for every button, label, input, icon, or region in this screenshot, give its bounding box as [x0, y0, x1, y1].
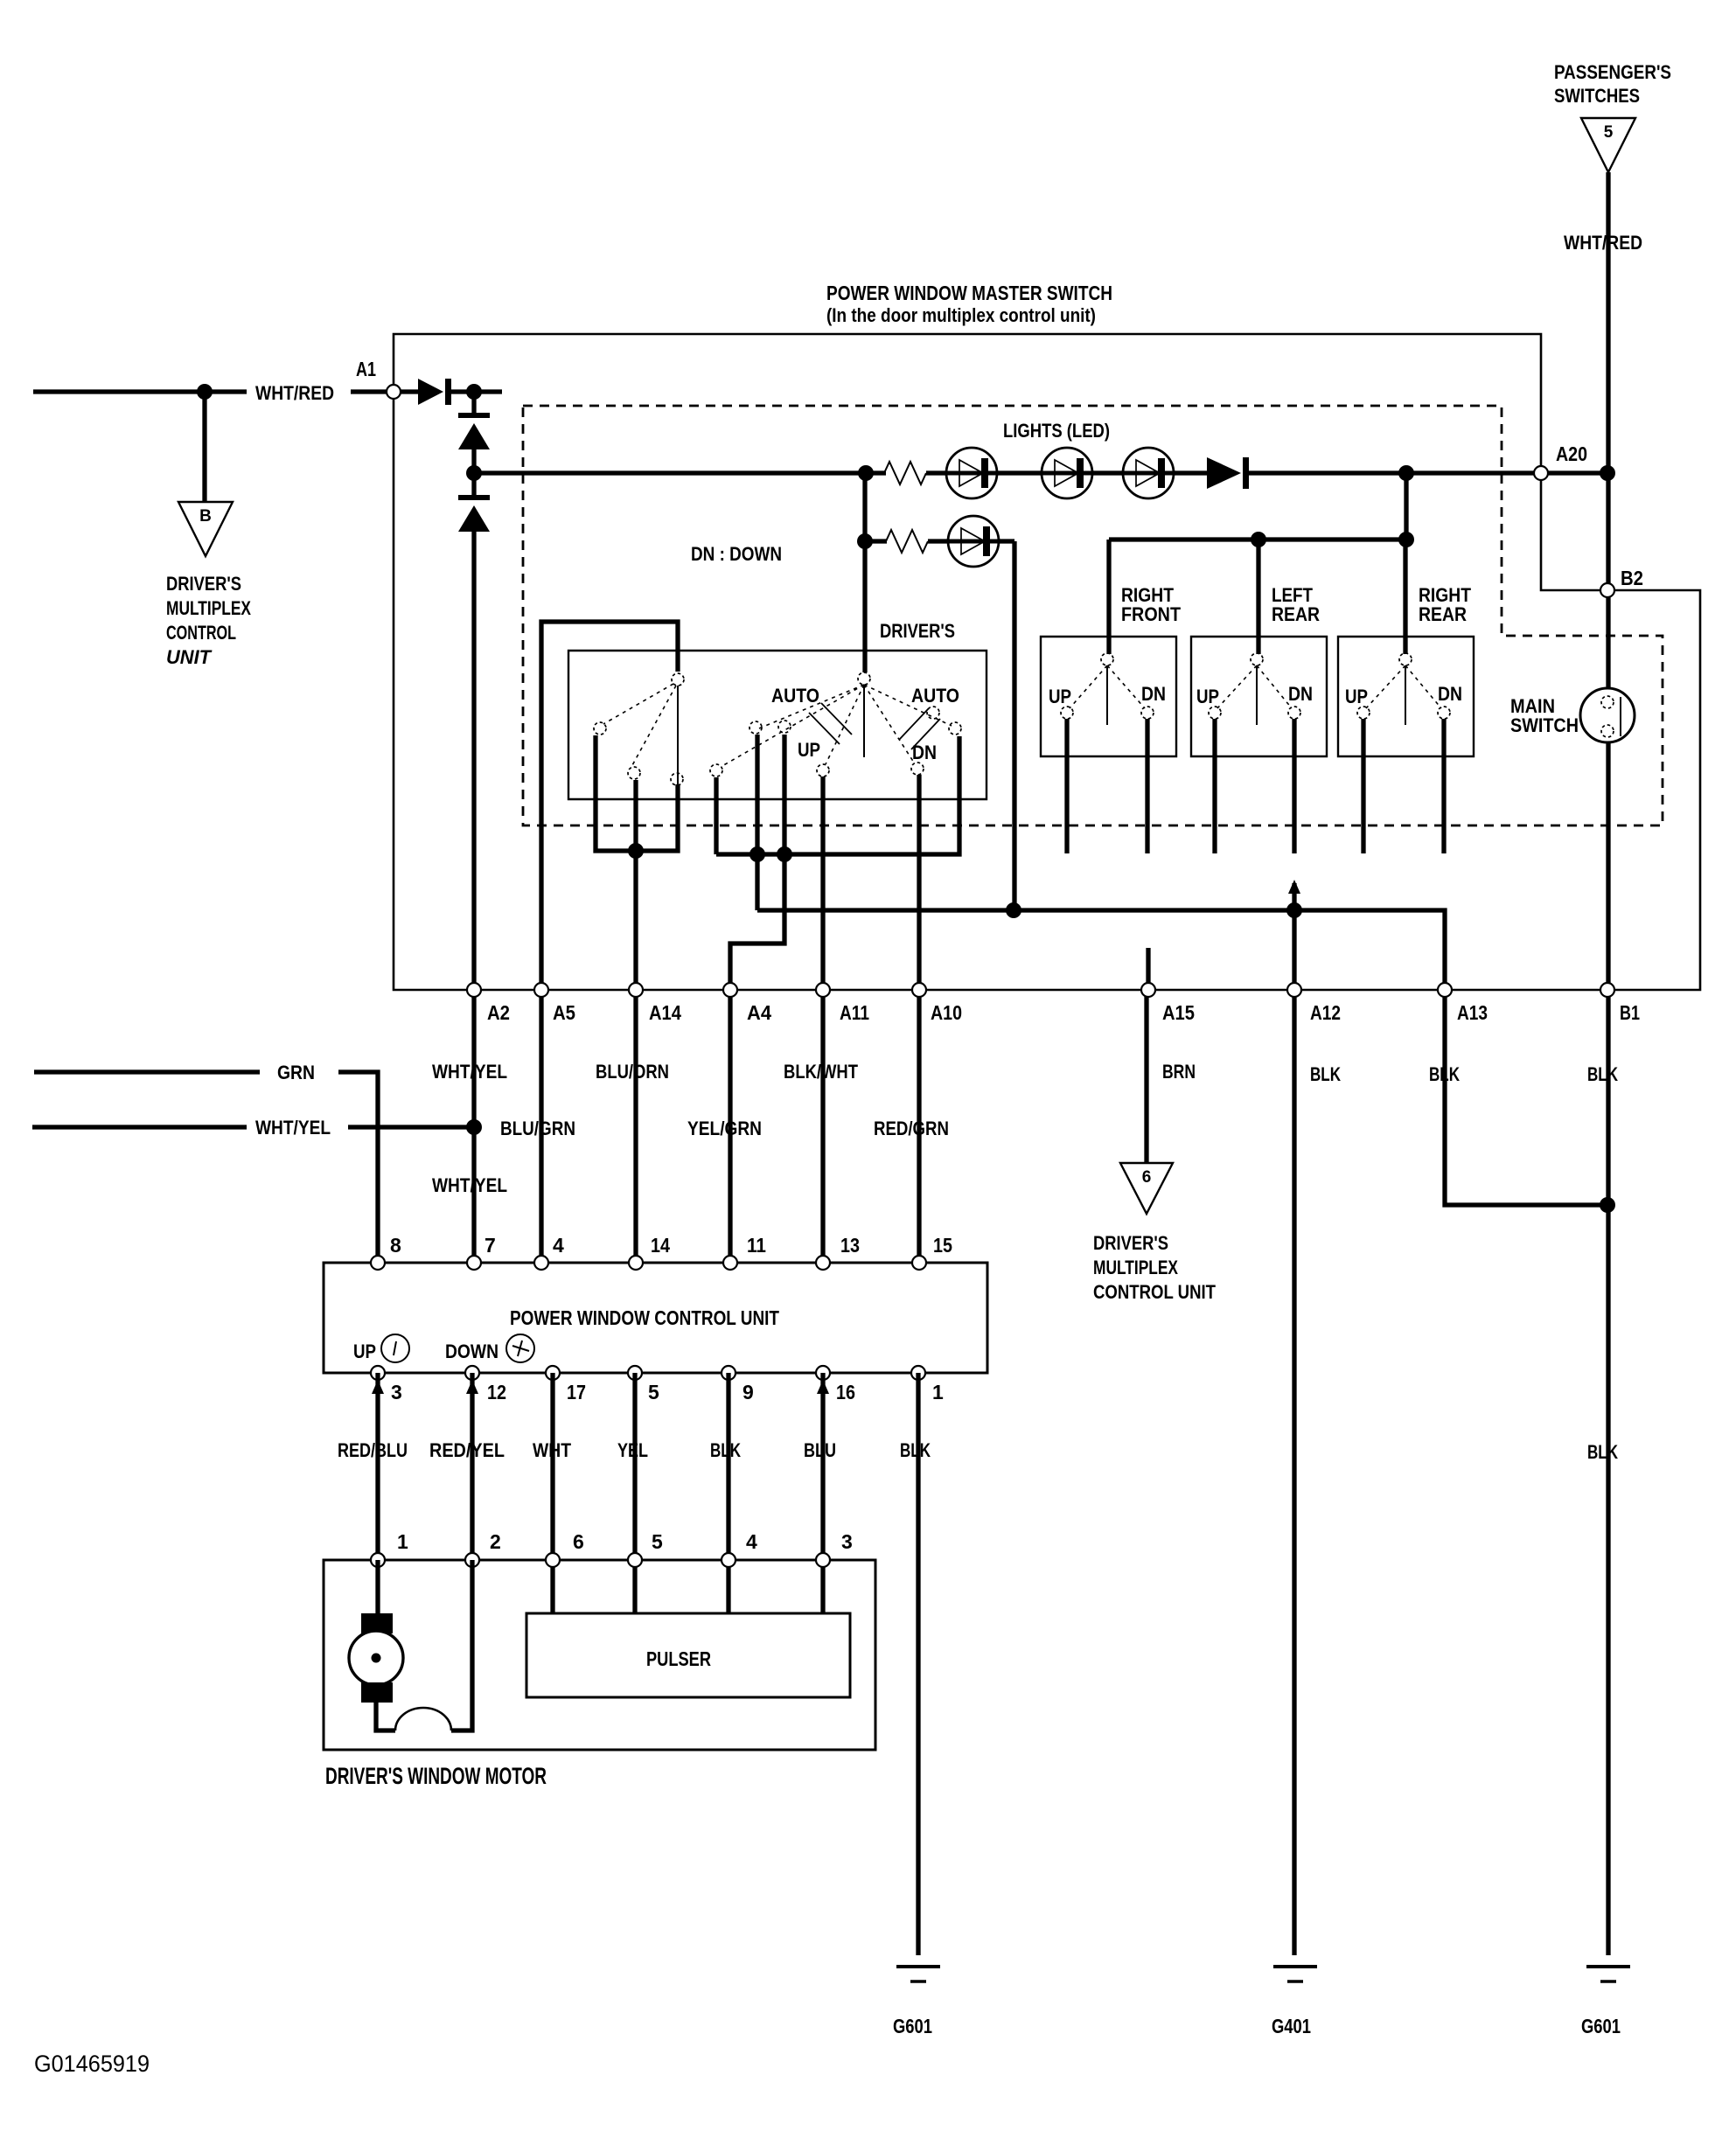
svg-text:WHT/RED: WHT/RED	[1564, 232, 1642, 254]
svg-text:WHT/YEL: WHT/YEL	[432, 1061, 507, 1083]
svg-text:SWITCH: SWITCH	[1510, 714, 1579, 736]
contact AUTO right	[949, 722, 961, 735]
detent bars right	[899, 708, 940, 749]
DOWN circle symbol	[506, 1334, 534, 1362]
junction WHT/YEL joins A2 wire	[466, 1119, 482, 1135]
junction passenger bus right rear tap	[1398, 532, 1414, 547]
ground G601 left	[896, 1967, 940, 1981]
wire GRN feed to pin8	[338, 1072, 378, 1263]
svg-text:WHT/YEL: WHT/YEL	[255, 1117, 331, 1139]
junction LED row tap for passenger bus	[1398, 465, 1414, 481]
wire between diode D2 and junction	[471, 449, 476, 495]
LED L2	[1042, 448, 1092, 498]
svg-text:RED/BLU: RED/BLU	[338, 1439, 408, 1461]
pin 3 bottom of control unit	[371, 1366, 385, 1380]
contact right front UP	[1061, 707, 1073, 719]
diode D3 pointing up	[458, 495, 490, 532]
right front switch box	[1041, 637, 1176, 756]
svg-text:DOWN: DOWN	[445, 1341, 498, 1362]
svg-text:UP: UP	[353, 1341, 376, 1362]
wire pin5 to pulser	[632, 1373, 637, 1613]
svg-text:5: 5	[1604, 123, 1614, 142]
wire from left switch position 1	[596, 735, 678, 851]
main switch blade	[1620, 697, 1621, 736]
wire WHT/RED feed from left	[33, 389, 247, 393]
contact left arm mid	[778, 721, 791, 733]
contact left switch position 1	[594, 722, 606, 735]
svg-text:UP: UP	[1345, 686, 1368, 707]
arm left switch to position 2	[631, 686, 676, 767]
svg-text:BLK: BLK	[900, 1439, 931, 1461]
connector 6 triangle	[1120, 1163, 1173, 1214]
junction LED feed tap	[466, 465, 482, 481]
svg-text:6: 6	[1142, 1168, 1152, 1187]
pin 17 bottom of control unit	[546, 1366, 560, 1380]
wire drop to driver's multiplex control unit connector B	[202, 392, 206, 502]
wire WHT/RED feed to A1	[351, 389, 387, 393]
arm right rear DN	[1405, 665, 1441, 708]
arm left rear UP	[1217, 665, 1257, 708]
svg-text:DRIVER'S WINDOW MOTOR: DRIVER'S WINDOW MOTOR	[325, 1763, 547, 1789]
svg-text:A4: A4	[747, 1001, 771, 1024]
svg-text:YEL: YEL	[617, 1439, 648, 1461]
svg-text:WHT/YEL: WHT/YEL	[432, 1174, 507, 1196]
svg-text:BLK/WHT: BLK/WHT	[784, 1061, 858, 1083]
resistor R2 for LED4	[886, 530, 928, 553]
connector A1	[387, 385, 401, 399]
wire right rear DN stub	[1441, 719, 1446, 853]
junction A13 joins B1 wire	[1600, 1197, 1615, 1213]
wire driver bus	[716, 736, 959, 854]
wire pin1 BLK to G601	[916, 1373, 920, 1955]
wire A2 riser below box	[471, 990, 476, 1263]
contact AUTO outer left	[710, 764, 722, 777]
svg-text:A13: A13	[1457, 1001, 1488, 1024]
LED L3	[1123, 448, 1174, 498]
wire left rear DN stub	[1292, 719, 1296, 853]
svg-text:9: 9	[743, 1381, 754, 1403]
junction driver bus at x866	[749, 846, 765, 862]
contact left mid	[749, 721, 762, 734]
wire resistor R1 to LED1	[926, 470, 946, 475]
contact right front DN	[1141, 707, 1154, 719]
diode D1 at A1	[418, 379, 451, 405]
motor box pin 1	[371, 1553, 385, 1567]
svg-text:MULTIPLEX: MULTIPLEX	[166, 597, 251, 619]
junction left switch outputs	[628, 843, 644, 859]
wire pin16 to pulser	[820, 1373, 825, 1613]
arm left switch to position 1	[603, 684, 673, 724]
svg-text:B: B	[199, 507, 212, 526]
wire down to diode D2	[471, 392, 476, 413]
wire from LED row down to passenger bus	[1404, 473, 1408, 540]
svg-text:6: 6	[573, 1530, 584, 1553]
wire from AUTO outer left contact	[714, 777, 718, 854]
svg-text:13: 13	[840, 1234, 860, 1257]
neutral arm right front	[1106, 665, 1108, 725]
svg-text:1: 1	[932, 1381, 944, 1403]
svg-text:BLU/ORN: BLU/ORN	[596, 1061, 669, 1083]
pin 8 top of control unit	[371, 1256, 385, 1270]
svg-text:A12: A12	[1310, 1001, 1341, 1024]
svg-text:BLU/GRN: BLU/GRN	[500, 1118, 575, 1139]
neutral arm of left switch	[677, 686, 679, 791]
connector A10	[912, 983, 926, 997]
diode D2 pointing up	[458, 413, 490, 449]
contact right rear DN	[1438, 707, 1450, 719]
svg-text:8: 8	[390, 1234, 401, 1257]
wire A5 riser and L feed to left switch common	[541, 622, 678, 1263]
arrowhead on A12 stub	[1288, 880, 1300, 894]
svg-text:DN: DN	[1288, 683, 1313, 705]
svg-text:PULSER: PULSER	[646, 1647, 711, 1670]
svg-text:REAR: REAR	[1272, 603, 1320, 625]
svg-text:RED/GRN: RED/GRN	[874, 1118, 949, 1139]
pin 14 top of control unit	[629, 1256, 643, 1270]
svg-text:DN: DN	[1141, 683, 1166, 705]
connector A20	[1534, 466, 1548, 480]
connector A2	[467, 983, 481, 997]
pulser box	[526, 1613, 850, 1697]
wire WHT/YEL feed to A2 wire	[348, 1125, 474, 1129]
main switch contact top	[1601, 696, 1614, 708]
svg-text:A20: A20	[1556, 442, 1587, 465]
UP circle symbol	[381, 1334, 409, 1362]
junction driver bus at x897	[777, 846, 792, 862]
stub right of junction	[474, 389, 502, 393]
wire LED4 output	[999, 539, 1014, 543]
junction lower bus A12	[1286, 902, 1302, 918]
arm right rear UP	[1366, 665, 1405, 708]
svg-text:REAR: REAR	[1419, 603, 1467, 625]
wire pin12 to motor pin2	[470, 1373, 474, 1560]
svg-text:CONTROL: CONTROL	[166, 622, 236, 644]
svg-text:G601: G601	[893, 2015, 932, 2037]
wire left arm mid contact to A4 jog	[730, 735, 784, 1263]
svg-text:14: 14	[651, 1234, 670, 1257]
wire UP contact to A11 pin13	[820, 777, 825, 1263]
arm to DN contact	[864, 685, 914, 763]
arm to UP contact	[826, 685, 864, 764]
wire feed right rear common	[1403, 540, 1407, 654]
wire left mid contact through bus to lower bus	[755, 735, 759, 910]
wire LED1 to LED2	[997, 470, 1042, 475]
ground G601 right	[1586, 1967, 1630, 1981]
svg-text:4: 4	[746, 1530, 757, 1553]
driver's window motor box	[324, 1560, 875, 1750]
junction passenger bus left rear tap	[1251, 532, 1266, 547]
junction driver common tap	[858, 465, 874, 481]
wire left rear UP stub	[1212, 719, 1217, 853]
svg-text:MULTIPLEX: MULTIPLEX	[1093, 1257, 1178, 1278]
right rear switch box	[1338, 637, 1474, 756]
svg-text:BRN: BRN	[1162, 1061, 1196, 1083]
wire DN contact to A10 pin15	[917, 775, 921, 1263]
neutral arm right rear	[1405, 665, 1406, 725]
svg-text:YEL/GRN: YEL/GRN	[687, 1118, 762, 1139]
junction lower LED row tap	[857, 533, 873, 549]
arm right front DN	[1107, 665, 1145, 708]
svg-text:17: 17	[567, 1381, 586, 1403]
svg-text:7: 7	[485, 1234, 496, 1257]
connector B triangle	[178, 502, 233, 556]
pin 7 top of control unit	[467, 1256, 481, 1270]
svg-text:DN : DOWN: DN : DOWN	[691, 543, 782, 565]
wire A15 to multiplex triangle	[1144, 990, 1148, 1163]
contact right arm mid	[927, 707, 939, 719]
svg-text:AUTO: AUTO	[771, 685, 819, 707]
svg-text:FRONT: FRONT	[1121, 603, 1182, 625]
wire LED3 to diode D4	[1174, 470, 1207, 475]
contact left rear common	[1251, 653, 1263, 665]
wire feed left rear common	[1256, 540, 1260, 654]
svg-text:BLK: BLK	[1310, 1063, 1341, 1085]
wire right front UP stub	[1064, 719, 1069, 853]
wire motor bottom lead	[376, 1703, 395, 1731]
pin 5 bottom of control unit	[628, 1366, 642, 1380]
pin 15 top of control unit	[912, 1256, 926, 1270]
svg-text:UP: UP	[1049, 686, 1071, 707]
wire diode to junction	[449, 389, 474, 393]
svg-text:DN: DN	[1438, 683, 1462, 705]
motor box pin 3	[816, 1553, 830, 1567]
svg-text:A2: A2	[487, 1001, 510, 1024]
svg-text:RED/YEL: RED/YEL	[429, 1439, 505, 1461]
svg-text:G401: G401	[1272, 2015, 1311, 2037]
svg-text:LIGHTS (LED): LIGHTS (LED)	[1003, 420, 1110, 442]
svg-text:BLK: BLK	[1587, 1441, 1618, 1463]
svg-text:GRN: GRN	[277, 1062, 315, 1083]
svg-text:(In the door multiplex control: (In the door multiplex control unit)	[826, 304, 1096, 326]
motor box pin 2	[465, 1553, 479, 1567]
wire right rear UP stub	[1361, 719, 1365, 853]
driver's switch box	[568, 651, 987, 799]
wire passenger common bus	[1109, 537, 1406, 541]
ground G401	[1273, 1967, 1317, 1981]
wire motor pin1 to motor	[375, 1560, 380, 1614]
motor M1 symbol	[349, 1613, 403, 1703]
contact right front common	[1101, 653, 1113, 665]
contact left switch neutral	[671, 773, 683, 785]
left rear switch box	[1191, 637, 1327, 756]
svg-text:A11: A11	[840, 1001, 869, 1024]
arrowhead pin12 wire	[466, 1380, 478, 1394]
svg-text:WHT: WHT	[533, 1439, 571, 1461]
wire junction to resistor R2	[865, 539, 887, 543]
junction lower bus LED4 drop	[1006, 902, 1021, 918]
stub above A12 junction	[1292, 883, 1296, 910]
arm to left mid contact	[759, 685, 864, 728]
main switch contact bottom	[1601, 725, 1614, 737]
pin 12 bottom of control unit	[465, 1366, 479, 1380]
svg-text:DRIVER'S: DRIVER'S	[1093, 1232, 1168, 1254]
svg-text:POWER WINDOW MASTER SWITCH: POWER WINDOW MASTER SWITCH	[826, 282, 1112, 304]
wire pin9 to pulser	[726, 1373, 730, 1613]
svg-text:BLU: BLU	[804, 1439, 836, 1461]
power window master switch box outline	[394, 334, 1700, 990]
wire driver common feed	[862, 473, 867, 672]
contact DN	[911, 763, 924, 775]
connector 5 triangle	[1581, 118, 1635, 172]
wire passenger vertical upper	[1606, 172, 1610, 697]
connector A15	[1141, 983, 1155, 997]
svg-text:11: 11	[747, 1234, 766, 1257]
svg-text:5: 5	[648, 1381, 659, 1403]
wire resistor R2 to LED4	[928, 539, 948, 543]
svg-text:5: 5	[652, 1530, 663, 1553]
svg-text:2: 2	[490, 1530, 501, 1553]
wire A2 riser inside box	[471, 532, 476, 990]
wire lower bus to A13	[757, 910, 1607, 1205]
wire LED2 to LED3	[1092, 470, 1123, 475]
pin 13 top of control unit	[816, 1256, 830, 1270]
dashed boundary of switch assembly	[523, 406, 1663, 825]
svg-text:AUTO: AUTO	[911, 685, 959, 707]
wire pin17 to pulser	[550, 1373, 554, 1613]
svg-text:A10: A10	[931, 1001, 962, 1024]
LED L1	[946, 448, 997, 498]
svg-text:B1: B1	[1620, 1001, 1640, 1024]
motor box pin 4	[722, 1553, 736, 1567]
junction after diode D1	[466, 384, 482, 400]
wire pin3 to motor pin1	[375, 1373, 380, 1560]
svg-text:UP: UP	[1196, 686, 1219, 707]
wire passenger vertical lower	[1606, 735, 1610, 1955]
power window control unit box	[324, 1263, 987, 1373]
wire GRN feed left segment	[34, 1069, 260, 1074]
wire arc to pin2 riser	[451, 1560, 472, 1731]
pin 11 top of control unit	[723, 1256, 737, 1270]
svg-text:G01465919: G01465919	[34, 2051, 150, 2077]
stub A15 above connector	[1146, 948, 1150, 990]
diode D4 after LEDs	[1207, 457, 1249, 489]
svg-text:CONTROL UNIT: CONTROL UNIT	[1093, 1281, 1216, 1303]
connector B2	[1600, 583, 1614, 597]
svg-text:PASSENGER'S: PASSENGER'S	[1554, 61, 1671, 83]
svg-text:SWITCHES: SWITCHES	[1554, 85, 1640, 107]
contact UP	[817, 764, 829, 777]
pin 4 top of control unit	[534, 1256, 548, 1270]
motor box pin 5	[628, 1553, 642, 1567]
pin 16 bottom of control unit	[816, 1366, 830, 1380]
svg-text:A15: A15	[1162, 1001, 1195, 1024]
wire from left switch position 2 to A14	[633, 780, 638, 1263]
junction at passenger vertical	[1600, 465, 1615, 481]
contact right rear common	[1399, 653, 1412, 665]
contact common of left switch	[672, 673, 684, 686]
detent bars left	[809, 703, 852, 744]
junction on WHT/RED feed	[197, 384, 213, 400]
wire A1 to diode	[400, 389, 418, 393]
connector A14	[629, 983, 643, 997]
contact left switch position 2	[628, 767, 640, 779]
wire WHT/YEL feed left segment	[32, 1125, 247, 1129]
svg-text:G601: G601	[1581, 2015, 1621, 2037]
neutral arm left rear	[1256, 665, 1258, 725]
LED L4	[948, 516, 999, 567]
svg-text:WHT/RED: WHT/RED	[255, 382, 334, 404]
arm left rear DN	[1257, 665, 1292, 708]
svg-text:A14: A14	[649, 1001, 681, 1024]
neutral arm of driver's switch	[863, 685, 865, 757]
svg-text:B2: B2	[1621, 567, 1643, 589]
svg-text:1: 1	[397, 1530, 408, 1553]
arm to AUTO up contact	[864, 685, 952, 726]
svg-text:A5: A5	[553, 1001, 575, 1024]
contact common of driver's switch	[858, 672, 870, 685]
connector A11	[816, 983, 830, 997]
wire LED4 drop to bus	[1012, 541, 1016, 910]
wire LED feed row	[474, 470, 886, 475]
connector A13	[1438, 983, 1452, 997]
connector A5	[534, 983, 548, 997]
contact right rear UP	[1357, 707, 1370, 719]
svg-text:3: 3	[391, 1381, 402, 1403]
arm to AUTO down outer contact	[721, 685, 864, 767]
arm right front UP	[1070, 665, 1107, 708]
pin 1 bottom of control unit	[911, 1366, 925, 1380]
svg-text:DRIVER'S: DRIVER'S	[166, 573, 241, 595]
svg-text:BLK: BLK	[1587, 1063, 1618, 1085]
svg-text:3: 3	[841, 1530, 853, 1553]
connector A12	[1287, 983, 1301, 997]
svg-text:BLK: BLK	[1429, 1063, 1460, 1085]
motor box pin 6	[546, 1553, 560, 1567]
svg-text:15: 15	[933, 1234, 952, 1257]
flexible link arc	[395, 1708, 451, 1731]
svg-text:BLK: BLK	[710, 1439, 741, 1461]
svg-text:A1: A1	[356, 358, 376, 380]
contact left rear DN	[1288, 707, 1300, 719]
wire right front DN stub	[1145, 719, 1149, 853]
svg-text:4: 4	[553, 1234, 564, 1257]
pin 9 bottom of control unit	[722, 1366, 736, 1380]
svg-text:DN: DN	[912, 742, 937, 763]
arrowhead pin3 wire	[372, 1380, 384, 1394]
svg-text:UNIT: UNIT	[166, 646, 213, 668]
svg-text:POWER WINDOW CONTROL UNIT: POWER WINDOW CONTROL UNIT	[510, 1306, 779, 1329]
wire feed right front common	[1106, 540, 1111, 654]
main switch circle	[1580, 688, 1635, 742]
contact left rear UP	[1209, 707, 1221, 719]
svg-text:DRIVER'S: DRIVER'S	[880, 620, 955, 642]
connector B1	[1600, 983, 1614, 997]
svg-text:UP: UP	[798, 739, 820, 761]
arrowhead pin16 wire	[817, 1380, 829, 1394]
svg-text:16: 16	[836, 1381, 855, 1403]
svg-text:12: 12	[487, 1381, 506, 1403]
resistor R1 for LEDs	[884, 462, 926, 484]
wire A12 to connector and G401	[1292, 910, 1296, 1955]
wire diode D4 to A20 and passenger wire	[1249, 470, 1607, 475]
connector A4	[723, 983, 737, 997]
